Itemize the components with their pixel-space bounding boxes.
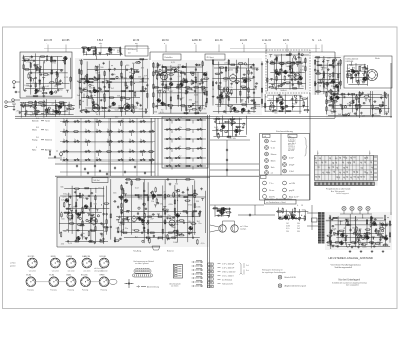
svg-text:1M: 1M [40, 87, 43, 89]
svg-text:100k: 100k [121, 219, 125, 221]
svg-text:4,7n: 4,7n [178, 76, 182, 78]
svg-text:Lautspr.: Lautspr. [240, 228, 247, 231]
svg-text:4b: 4b [63, 129, 65, 131]
svg-text:UKW-Misch: UKW-Misch [127, 49, 137, 51]
svg-text:2a: 2a [96, 157, 98, 159]
svg-text:b-c: b-c [289, 136, 292, 138]
svg-text:Ton-Ausg.: Ton-Ausg. [133, 250, 142, 253]
svg-text:2e: 2e [129, 119, 131, 121]
svg-text:0,5M: 0,5M [364, 72, 369, 74]
svg-text:4,7n: 4,7n [315, 71, 319, 73]
svg-text:8,2: 8,2 [179, 156, 181, 158]
svg-text:5a: 5a [118, 129, 120, 131]
svg-text:ECC85: ECC85 [28, 256, 35, 258]
svg-text:an: an [271, 172, 273, 174]
svg-text:Blech: Blech [271, 160, 276, 162]
svg-text:nur Tonabnehmer u. Band: nur Tonabnehmer u. Band [266, 201, 286, 204]
svg-text:Masse: Masse [271, 154, 277, 156]
svg-text:4,7n: 4,7n [201, 243, 205, 245]
svg-text:25u: 25u [116, 228, 119, 230]
svg-text:0,5uF: 0,5uF [289, 157, 295, 159]
svg-text:Vorführungsmodell: Vorführungsmodell [335, 266, 353, 269]
svg-text:EZ 81: EZ 81 [283, 40, 290, 42]
svg-text:geg.M: geg.M [289, 190, 295, 192]
svg-text:bei UKW: bei UKW [288, 150, 295, 152]
svg-text:56k: 56k [178, 92, 181, 94]
svg-text:Kanal: Kanal [45, 113, 51, 115]
svg-text:ZF-Verst: ZF-Verst [207, 56, 215, 59]
svg-text:Punkt: Punkt [271, 140, 276, 143]
svg-text:250: 250 [286, 231, 289, 233]
svg-text:0,5M: 0,5M [96, 73, 101, 75]
svg-text:25u: 25u [167, 215, 170, 217]
svg-text:alle Fassungen: alle Fassungen [94, 268, 104, 270]
svg-text:25u: 25u [179, 127, 182, 129]
svg-text:Betrieb: Betrieb [32, 120, 39, 123]
svg-text:2e: 2e [85, 129, 87, 131]
svg-text:ECC85: ECC85 [81, 274, 88, 276]
svg-text:Abgleich-Bestimmungsort: Abgleich-Bestimmungsort [285, 285, 307, 288]
svg-text:ECC85: ECC85 [62, 40, 70, 42]
svg-text:Abgl. 0,4 V~: Abgl. 0,4 V~ [289, 195, 300, 198]
svg-text:Balance: Balance [167, 251, 174, 253]
svg-text:Klang: Klang [32, 140, 38, 142]
svg-text:12k: 12k [223, 112, 226, 114]
svg-text:12k: 12k [281, 63, 284, 65]
svg-text:100k: 100k [196, 206, 200, 208]
svg-text:25u: 25u [277, 95, 280, 97]
svg-text:56k: 56k [297, 212, 300, 214]
svg-text:10k: 10k [46, 88, 49, 90]
svg-text:EF 89: EF 89 [133, 40, 140, 42]
svg-text:4,7n: 4,7n [112, 74, 116, 76]
svg-text:Taste: Taste [45, 120, 51, 123]
svg-text:330: 330 [297, 231, 300, 233]
svg-text:470k: 470k [63, 111, 67, 113]
svg-text:1M: 1M [353, 246, 356, 248]
svg-text:2e: 2e [63, 157, 65, 159]
svg-text:Fassung: Fassung [50, 289, 56, 291]
svg-text:EABC80: EABC80 [82, 255, 91, 258]
svg-text:25u: 25u [198, 223, 201, 225]
svg-text:1M: 1M [215, 74, 218, 76]
svg-text:25u: 25u [287, 71, 290, 73]
svg-text:12k: 12k [320, 79, 323, 81]
svg-text:2e: 2e [129, 157, 131, 159]
svg-text:47kpF: 47kpF [289, 164, 295, 166]
svg-text:25u: 25u [220, 216, 223, 218]
svg-text:25u: 25u [125, 228, 128, 230]
svg-text:Netz: Netz [32, 149, 36, 152]
svg-text:an DIN: an DIN [289, 183, 296, 185]
svg-text:0,5M: 0,5M [331, 235, 336, 237]
svg-text:12k: 12k [61, 200, 64, 202]
svg-text:10k: 10k [119, 225, 122, 227]
svg-text:1M: 1M [363, 238, 366, 240]
svg-text:0,5M: 0,5M [338, 221, 343, 223]
svg-text:Zeichenerklärung: Zeichenerklärung [276, 130, 294, 133]
svg-text:56k: 56k [60, 187, 63, 189]
svg-text:470k: 470k [168, 204, 172, 206]
svg-text:12k: 12k [140, 79, 143, 81]
svg-text:25u: 25u [179, 164, 182, 166]
svg-text:0,5M: 0,5M [24, 85, 29, 87]
svg-text:a-b: a-b [264, 136, 267, 138]
svg-text:dann ausgegeben: dann ausgegeben [346, 284, 359, 286]
svg-text:ECC 85: ECC 85 [44, 40, 53, 42]
svg-text:4,7n: 4,7n [83, 198, 87, 200]
svg-text:470k: 470k [52, 62, 56, 64]
svg-text:1 MO = 1000 kO: 1 MO = 1000 kO [222, 272, 236, 274]
svg-text:u.A: u.A [318, 39, 322, 42]
svg-text:25u: 25u [81, 233, 84, 235]
svg-text:0,1: 0,1 [179, 146, 181, 148]
svg-text:0,5 W belast: 0,5 W belast [222, 279, 232, 282]
svg-text:1 uF = 1000 nF: 1 uF = 1000 nF [222, 268, 235, 270]
svg-text:5a: 5a [140, 139, 142, 141]
svg-text:100k: 100k [345, 219, 349, 221]
svg-text:Fassung: Fassung [68, 289, 74, 291]
svg-text:zu Kanal 2: zu Kanal 2 [288, 139, 295, 141]
svg-text:12k: 12k [165, 236, 168, 238]
svg-text:U ab: U ab [271, 147, 275, 149]
svg-text:100k: 100k [26, 105, 30, 107]
svg-text:10k: 10k [139, 81, 142, 83]
svg-text:100k: 100k [256, 106, 260, 108]
svg-text:4,7n: 4,7n [214, 208, 218, 210]
svg-text:4,7n: 4,7n [385, 223, 389, 225]
svg-text:10k: 10k [166, 209, 169, 211]
svg-text:6 BL8: 6 BL8 [97, 40, 104, 42]
svg-text:10k: 10k [77, 81, 80, 83]
svg-text:UKW AM: UKW AM [346, 60, 354, 63]
svg-text:Toleranz 10%: Toleranz 10% [222, 284, 233, 286]
svg-text:Stimme: Stimme [45, 139, 53, 142]
svg-text:1 nF = 1000 pF: 1 nF = 1000 pF [222, 264, 235, 266]
svg-text:2e: 2e [63, 119, 65, 121]
svg-text:Bittele B B W: Bittele B B W [285, 276, 296, 279]
svg-text:10k: 10k [79, 60, 82, 62]
svg-text:Netzgeräteteil: Netzgeräteteil [327, 244, 339, 247]
svg-text:Aus Takt gemsalt: Aus Takt gemsalt [331, 190, 345, 193]
svg-text:Fassung: Fassung [101, 289, 107, 291]
svg-text:1,5kO: 1,5kO [289, 171, 295, 173]
svg-text:2a: 2a [85, 139, 87, 141]
svg-text:100k: 100k [253, 89, 257, 91]
svg-text:2x EL 84: 2x EL 84 [262, 40, 272, 42]
svg-text:0,5M: 0,5M [103, 79, 108, 81]
svg-text:d: d [242, 43, 243, 45]
svg-text:1M: 1M [151, 201, 154, 203]
svg-text:12k: 12k [377, 242, 380, 244]
svg-text:4,7n: 4,7n [63, 197, 67, 199]
svg-text:25u: 25u [179, 137, 182, 139]
svg-text:St: St [312, 39, 315, 42]
svg-text:56k: 56k [279, 85, 282, 87]
svg-text:25u: 25u [91, 85, 94, 87]
svg-text:NF-Teil: NF-Teil [94, 180, 101, 182]
svg-text:19: 19 [301, 205, 303, 207]
svg-text:56k: 56k [302, 210, 305, 212]
svg-text:0,5M: 0,5M [182, 107, 187, 109]
svg-text:abc: abc [99, 43, 102, 45]
svg-text:Band: Band [32, 113, 38, 115]
svg-text:Tonband 3: Tonband 3 [288, 141, 295, 143]
svg-text:nur oben / gesamt: nur oben / gesamt [135, 262, 149, 265]
svg-text:5a: 5a [96, 129, 98, 131]
svg-text:Ratiofilter: Ratiofilter [165, 56, 173, 59]
svg-text:25u: 25u [16, 110, 19, 112]
svg-text:56k: 56k [112, 50, 115, 52]
svg-text:56k: 56k [158, 65, 161, 67]
svg-text:5a: 5a [63, 139, 65, 141]
svg-text:12k: 12k [164, 85, 167, 87]
svg-text:470k: 470k [188, 205, 192, 207]
svg-text:4b: 4b [129, 149, 131, 151]
svg-text:420 Hz: 420 Hz [269, 196, 275, 198]
svg-text:Nur bei Unterlagen!: Nur bei Unterlagen! [339, 279, 361, 282]
svg-text:2e: 2e [107, 129, 109, 131]
svg-text:470k: 470k [362, 69, 366, 71]
svg-text:EABC 80: EABC 80 [192, 39, 202, 42]
svg-text:3d: 3d [129, 139, 131, 141]
svg-text:EM84: EM84 [67, 256, 73, 258]
svg-text:470k: 470k [323, 88, 327, 90]
svg-text:12k: 12k [167, 69, 170, 71]
svg-text:EM 84: EM 84 [162, 40, 169, 42]
svg-text:1M: 1M [121, 229, 124, 231]
svg-text:mn: mn [135, 43, 138, 45]
svg-text:2e: 2e [74, 139, 76, 141]
svg-text:Fassung: Fassung [27, 289, 33, 291]
svg-text:10k: 10k [175, 224, 178, 226]
svg-text:Abschirmleitung: Abschirmleitung [147, 285, 159, 288]
svg-text:1M: 1M [216, 117, 219, 119]
svg-text:12k: 12k [179, 118, 182, 120]
svg-text:0,5M: 0,5M [191, 222, 196, 224]
svg-text:12k: 12k [229, 87, 232, 89]
svg-text:Sich: Sich [271, 167, 275, 169]
svg-text:10k: 10k [293, 100, 296, 102]
svg-text:4,7n: 4,7n [102, 110, 106, 112]
svg-text:1M: 1M [160, 204, 163, 206]
svg-text:470k: 470k [138, 199, 142, 201]
svg-text:tu: tu [194, 42, 196, 45]
svg-text:1k om: 1k om [269, 190, 275, 192]
svg-text:100k: 100k [229, 70, 233, 72]
svg-text:ECL86: ECL86 [100, 256, 107, 258]
svg-text:100k: 100k [194, 95, 198, 97]
svg-text:10k: 10k [246, 65, 249, 67]
svg-text:HiFi-STEREO-ANLAGE_ANSTAND: HiFi-STEREO-ANLAGE_ANSTAND [329, 256, 373, 260]
svg-text:ECL86: ECL86 [240, 40, 248, 42]
svg-text:25u: 25u [176, 85, 179, 87]
svg-text:1 kO = 1000 O: 1 kO = 1000 O [222, 276, 234, 278]
svg-text:100k: 100k [173, 242, 177, 244]
svg-text:4,7n: 4,7n [300, 69, 304, 71]
svg-text:470k: 470k [192, 74, 196, 76]
svg-text:1c: 1c [107, 139, 109, 141]
svg-text:12k: 12k [169, 79, 172, 81]
svg-text:4b: 4b [96, 119, 98, 121]
svg-text:1M: 1M [322, 59, 325, 61]
svg-text:ECL 86: ECL 86 [215, 40, 223, 42]
svg-text:1M: 1M [118, 105, 121, 107]
svg-text:100k: 100k [352, 228, 356, 230]
svg-text:Fassung: Fassung [82, 289, 88, 291]
svg-text:470k: 470k [201, 91, 205, 93]
svg-text:4,7n: 4,7n [66, 107, 70, 109]
svg-text:100k: 100k [117, 50, 121, 52]
